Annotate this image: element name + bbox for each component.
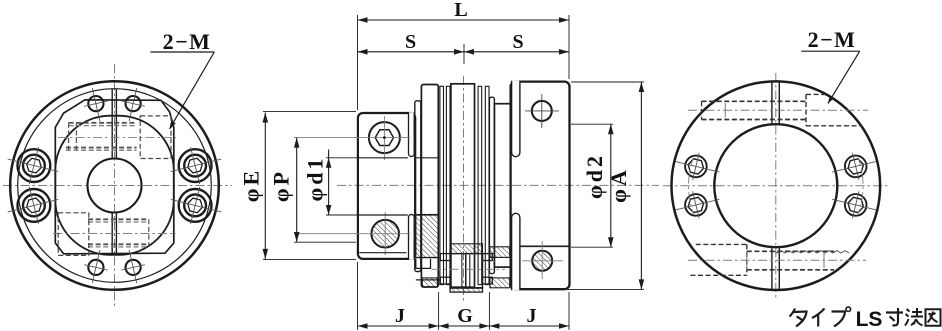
left view top slit line left bbox=[111, 89, 113, 159]
left collar bottom slit bbox=[409, 214, 415, 259]
svg-text:φd1: φd1 bbox=[303, 156, 328, 202]
label 2-M (right view) bbox=[808, 27, 857, 52]
right view bottom hidden thread line upper bbox=[747, 250, 834, 252]
right view bottom hidden head bore right bbox=[746, 244, 748, 275]
right view top hidden thread line lower bbox=[702, 119, 807, 121]
left view lower hidden centerline bbox=[53, 233, 176, 235]
svg-text:2−M: 2−M bbox=[163, 29, 212, 54]
dimension phid1 bbox=[326, 150, 332, 216]
right view top hidden screw centerline bbox=[688, 109, 868, 111]
label J right bbox=[527, 305, 537, 327]
left collar clamp screw (socket head) bbox=[340, 116, 410, 160]
title text: taipu LS sunpouzu bbox=[790, 307, 941, 331]
left view collar stadium profile bbox=[55, 116, 174, 255]
left flange plate bbox=[421, 85, 438, 288]
left disc plate 2 bbox=[446, 86, 450, 284]
svg-text:φd2: φd2 bbox=[582, 153, 607, 199]
left view outer circle bbox=[10, 81, 219, 290]
extension lines phiE bbox=[263, 112, 356, 260]
svg-text:LS: LS bbox=[856, 308, 883, 331]
extension line left (L/S/J) bbox=[357, 15, 359, 330]
right hub top slit bbox=[512, 81, 520, 157]
socket head cap screw 4 (left view) bbox=[171, 187, 222, 224]
right view bottom slit line right bbox=[778, 247, 780, 290]
extension line right (L/S/J) bbox=[568, 15, 570, 330]
spacer section hatch bbox=[451, 244, 483, 254]
extension lines phiA bbox=[565, 82, 644, 289]
right view bottom hidden screw tick bbox=[746, 251, 748, 270]
socket head cap screw 1 (left view) bbox=[8, 147, 59, 184]
disc bolt axis centerline bbox=[432, 268, 505, 270]
right view PCD arc left bbox=[688, 158, 693, 214]
label J left bbox=[395, 305, 405, 327]
svg-text:φA: φA bbox=[606, 167, 631, 203]
extension lines phid2 bbox=[571, 124, 613, 247]
left collar top slit bbox=[409, 112, 415, 156]
dimension G bbox=[439, 323, 490, 329]
right pack section hatch upper bbox=[490, 247, 510, 258]
right view top slit line right bbox=[778, 82, 780, 125]
right view outer circle bbox=[672, 81, 881, 290]
left flange section hatch upper bbox=[416, 215, 438, 258]
right view top hidden head bore top bbox=[806, 93, 827, 95]
disc bolt left body bbox=[450, 254, 466, 289]
disc bolt inner line 2 bbox=[469, 255, 471, 288]
extension lines phid1 bbox=[326, 158, 357, 215]
left disc plate 1 bbox=[440, 86, 444, 284]
tapped hole 2-M #4 (left view) bbox=[121, 250, 144, 283]
hex bolt 2 (right view) bbox=[676, 191, 720, 218]
svg-text:J: J bbox=[527, 305, 537, 327]
label L bbox=[454, 0, 467, 21]
right hub tapped hole top bbox=[525, 94, 559, 128]
socket head cap screw 2 (left view) bbox=[8, 187, 59, 224]
right view top hidden head bore bottom bbox=[806, 125, 861, 127]
right view top slit line left bbox=[771, 82, 773, 125]
svg-text:L: L bbox=[454, 0, 467, 21]
right hub body bbox=[511, 82, 570, 290]
right view PCD arc right bbox=[858, 158, 863, 214]
disc bolt right body bbox=[466, 254, 483, 289]
right disc plate 2 bbox=[485, 86, 489, 284]
disc bolt washer right lower bbox=[483, 277, 493, 284]
disc bolt bottom head bbox=[450, 288, 482, 292]
right view horizontal centerline bbox=[663, 185, 888, 187]
left flange section hatch lower bbox=[422, 278, 437, 287]
left collar internal shoulder line bbox=[359, 252, 406, 254]
left view lower hidden slot band line 2 bbox=[88, 221, 149, 223]
right view bottom hidden head bore top bbox=[696, 243, 747, 245]
middle view horizontal centerline bbox=[337, 184, 659, 186]
right hub bottom slit bbox=[512, 213, 520, 290]
left view upper hidden slot band line 1 bbox=[69, 122, 137, 124]
tapped hole 2-M #3 (left view) bbox=[84, 250, 107, 283]
middle view vertical centerline (spacer axis) bbox=[463, 76, 465, 302]
bolt hole line left upper bbox=[416, 257, 441, 259]
disc bolt washer left upper bbox=[440, 254, 450, 261]
disc bolt washer right upper bbox=[483, 254, 493, 261]
extension line middle (S) bbox=[463, 44, 465, 64]
left view vertical centerline bbox=[114, 64, 116, 309]
left view bottom slit line left bbox=[111, 213, 113, 254]
right view vertical centerline bbox=[775, 73, 777, 299]
left view lower hidden slot band line 4 bbox=[88, 246, 149, 248]
svg-text:S: S bbox=[405, 31, 416, 53]
left view upper hidden vertical bbox=[75, 123, 77, 150]
dimension S left bbox=[358, 49, 465, 55]
disc bolt washer left lower bbox=[440, 277, 450, 284]
label 2-M (left view) bbox=[163, 29, 212, 54]
svg-text:S: S bbox=[512, 31, 523, 53]
left step plate bbox=[415, 101, 421, 272]
right hub clamp screw sectioned bbox=[522, 241, 563, 279]
svg-text:2−M: 2−M bbox=[808, 27, 857, 52]
right view top hidden head bore left bbox=[805, 94, 807, 125]
left view upper hidden centerline bbox=[58, 137, 176, 139]
left view bore circle bbox=[88, 159, 142, 213]
label G bbox=[457, 305, 473, 327]
dimension phiA bbox=[639, 82, 645, 289]
left view upper hidden slot band line 2 bbox=[69, 125, 137, 127]
label phiE bbox=[239, 168, 264, 202]
left view top slit line right bbox=[115, 89, 117, 159]
left view upper hidden slot band line 3 bbox=[66, 147, 137, 149]
right view bottom thread zigzag bbox=[773, 251, 849, 253]
leader line 2-M (left view) bbox=[150, 52, 214, 129]
svg-text:J: J bbox=[395, 305, 405, 327]
right view bottom hidden thread line lower bbox=[747, 269, 834, 271]
label S right bbox=[512, 31, 523, 53]
left view horizontal centerline bbox=[3, 185, 232, 187]
bolt hole line left lower bbox=[416, 279, 441, 281]
hex bolt 4 (right view) bbox=[832, 191, 876, 218]
hex bolt 3 (right view) bbox=[832, 153, 876, 180]
right view bottom hidden screw tick 2 bbox=[823, 252, 825, 268]
dimension J left bbox=[358, 323, 439, 329]
right step plate bbox=[489, 97, 494, 273]
dimension phid2 bbox=[608, 124, 614, 247]
left view upper right hidden rect bbox=[140, 116, 171, 159]
dimension S right bbox=[464, 49, 569, 55]
extension line G left bbox=[438, 292, 440, 330]
left collar body bbox=[358, 113, 415, 259]
right pack block bbox=[494, 104, 510, 267]
label phid1 bbox=[303, 156, 328, 202]
left view lower left hidden rect bbox=[58, 213, 89, 256]
hex bolt 1 (right view) bbox=[676, 153, 720, 180]
dimension L bbox=[358, 17, 570, 23]
left view bottom slit line right bbox=[115, 213, 117, 254]
left view chamfer circle bbox=[18, 89, 212, 283]
svg-text:φP: φP bbox=[269, 169, 294, 202]
extension lines phiP bbox=[294, 138, 356, 243]
right hub step line bbox=[520, 245, 570, 247]
label phiP bbox=[269, 169, 294, 202]
right view bore circle bbox=[714, 124, 837, 247]
left view lower hidden slot right cap bbox=[148, 219, 150, 247]
left view upper hidden slot band line 4 bbox=[66, 149, 137, 151]
dimension J right bbox=[489, 323, 569, 329]
extension line G right bbox=[488, 292, 490, 330]
svg-text:G: G bbox=[457, 305, 473, 327]
left hub bore line upper bbox=[359, 157, 439, 159]
tapped hole 2-M #1 (left view) bbox=[84, 88, 107, 121]
right view bottom slit line left bbox=[771, 247, 773, 290]
right view top hidden thread line upper bbox=[702, 100, 807, 102]
right disc plate 1 bbox=[478, 86, 482, 284]
left view upper hidden slot left cap bbox=[68, 123, 70, 150]
label phiA bbox=[606, 167, 631, 203]
svg-text:φE: φE bbox=[239, 168, 264, 202]
dimension phiP bbox=[294, 138, 300, 242]
socket head cap screw 3 (left view) bbox=[171, 147, 222, 184]
right view bottom hidden screw centerline bbox=[688, 259, 866, 261]
right view bottom hidden head bore bottom bbox=[690, 274, 746, 276]
tapped hole 2-M #2 (left view) bbox=[121, 88, 144, 121]
center spacer bbox=[451, 84, 475, 287]
label phid2 bbox=[582, 153, 607, 199]
right view top hidden left cap bbox=[701, 101, 703, 119]
label S left bbox=[405, 31, 416, 53]
collar bottom step piece bbox=[416, 259, 431, 269]
leader line 2-M (right view) bbox=[801, 51, 860, 103]
left view lower hidden slot band line 1 bbox=[88, 218, 149, 220]
left view lower hidden slot band line 3 bbox=[88, 243, 149, 245]
right pack section hatch lower bbox=[490, 278, 510, 288]
left view collar octagon outline bbox=[55, 100, 174, 254]
left hub bore line lower bbox=[359, 214, 439, 216]
dimension phiE bbox=[263, 113, 269, 259]
left collar clamp screw sectioned bbox=[340, 212, 410, 255]
right view top hidden screw tick bbox=[724, 103, 726, 118]
disc bolt inner line 1 bbox=[461, 255, 463, 288]
